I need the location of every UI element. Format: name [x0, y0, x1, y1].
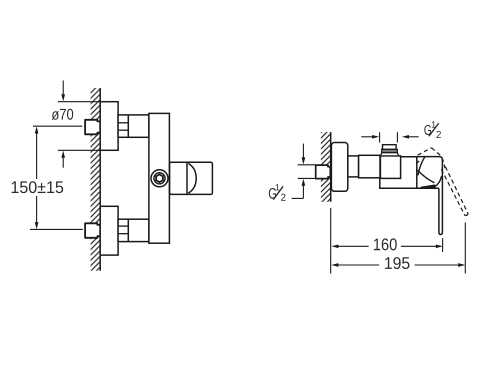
lever lower edge line: [418, 170, 435, 183]
dim 195: [331, 263, 465, 267]
top supply nut behind wall: [85, 120, 100, 135]
dashed lever tip extension line: [464, 223, 466, 274]
body block 2: [359, 155, 380, 178]
dim G1/2 top: left arrow: [361, 135, 379, 139]
dim ø70 extension line top: [58, 101, 100, 103]
mixer body column: [149, 113, 170, 243]
label G1/2 left: [269, 184, 286, 201]
upper union assembly: [118, 115, 149, 137]
neck between flange and body: [348, 156, 359, 177]
dim ø70 bottom arrow: [61, 151, 65, 168]
dim G1/2 top: right arrow: [402, 135, 419, 139]
dim 160: [331, 244, 443, 248]
dim 150±15 extension line top: [33, 125, 82, 127]
inlet nut behind wall (side): [316, 165, 331, 179]
bottom supply nut behind wall: [85, 223, 100, 238]
dim G1/2 top: extension lines: [379, 132, 381, 142]
top flange (escutcheon): [100, 102, 118, 151]
handle (front view, cylinder toward viewer): [170, 162, 213, 194]
handle raised position (dashed): [418, 148, 468, 216]
lever grip dark wedge: [421, 185, 435, 189]
cartridge screw circles: [151, 170, 168, 187]
handle body (side, solid position): [417, 157, 443, 235]
dim G1/2 left: extension lines: [298, 164, 316, 166]
dim 150±15 vertical line and arrows: [35, 126, 39, 229]
lever lower silhouette curve: [435, 176, 442, 187]
lower body block: [380, 178, 439, 189]
lever tip extension line: [442, 238, 444, 252]
label 160: [374, 238, 397, 250]
lower union assembly: [118, 219, 149, 241]
wall hatching: [91, 88, 101, 271]
dim ø70 top arrow: [61, 81, 65, 102]
wall hatching (side): [321, 132, 331, 202]
label 150±15: [12, 181, 64, 193]
top outlet cap: [383, 145, 397, 150]
wall face line: [99, 88, 101, 271]
handle lever front edge line: [418, 157, 425, 176]
dim G1/2 left: upper arrow: [302, 144, 306, 165]
body block 3 (with top outlet): [380, 156, 400, 179]
label ø70: [52, 109, 74, 120]
top outlet shoulder: [380, 153, 398, 156]
wall face extension line down: [330, 208, 332, 274]
label 195: [385, 257, 409, 269]
dim G1/2 left: lower arrow and leader: [292, 179, 306, 199]
valve section right of block3: [401, 157, 417, 189]
dim 150±15 extension line bottom: [30, 228, 83, 230]
wall face line (side): [330, 132, 332, 202]
flange (side view): [331, 143, 347, 192]
label G1/2 top: [424, 121, 441, 138]
top outlet collar ring: [382, 149, 398, 152]
small notch at handle left edge: [417, 161, 419, 163]
bottom flange (escutcheon): [100, 206, 118, 255]
dim ø70 extension line bottom: [58, 149, 100, 151]
